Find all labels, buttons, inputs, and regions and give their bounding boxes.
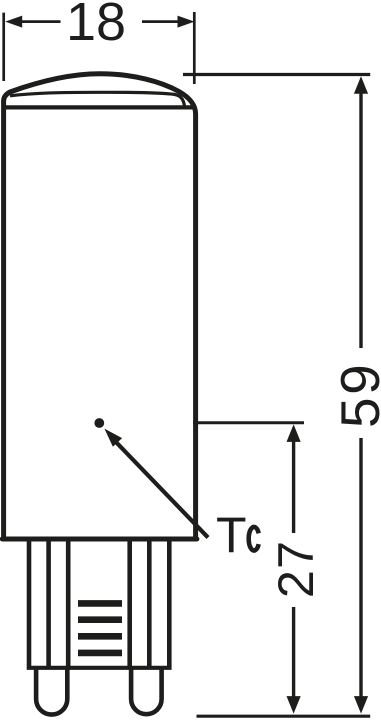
base strut 5 bbox=[147, 540, 152, 666]
dome inner arc bbox=[10, 92, 185, 106]
svg-text:18: 18 bbox=[66, 0, 126, 52]
extension line top (59) bbox=[183, 73, 370, 76]
base strut 1 bbox=[27, 540, 32, 666]
arrowhead 59 bottom bbox=[354, 696, 368, 714]
arrowhead 59 top bbox=[354, 76, 368, 94]
extension line left (18) bbox=[2, 13, 5, 81]
arrowhead 18 right bbox=[178, 16, 195, 28]
Tc leader line bbox=[114, 440, 208, 538]
base bottom edge bbox=[27, 666, 172, 670]
Tc point dot bbox=[94, 418, 104, 428]
vent bar 2 bbox=[78, 616, 122, 623]
dimension line 59 upper segment bbox=[359, 92, 362, 348]
base strut 6 bbox=[167, 540, 172, 666]
vent bar 4 bbox=[78, 650, 122, 657]
dome seam line bbox=[4, 105, 196, 109]
base strut 4 bbox=[127, 540, 132, 666]
base strut 2 bbox=[46, 540, 51, 666]
svg-text:T: T bbox=[216, 507, 247, 563]
lamp body outline (dome + sides + bottom) bbox=[4, 74, 196, 537]
base strut 3 bbox=[66, 540, 71, 666]
Tc leader arrowhead bbox=[104, 429, 122, 447]
extension line Tc level (27) bbox=[193, 421, 304, 424]
dimension line 18 right segment bbox=[142, 20, 180, 23]
dimension line 27 lower segment bbox=[292, 607, 295, 698]
dimension line 59 lower segment bbox=[359, 438, 362, 698]
svg-text:59: 59 bbox=[329, 362, 381, 428]
arrowhead 18 left bbox=[5, 16, 22, 28]
extension line right (18) bbox=[193, 12, 196, 84]
vent bar 1 bbox=[78, 600, 122, 607]
dimension line 27 upper segment bbox=[292, 440, 295, 533]
dimension line 18 left segment bbox=[20, 20, 61, 23]
svg-text:27: 27 bbox=[267, 540, 324, 598]
right pin bbox=[131, 667, 162, 714]
Tc label c bbox=[249, 527, 259, 551]
arrowhead 27 bottom bbox=[287, 696, 301, 714]
vent bar 3 bbox=[78, 633, 122, 640]
left pin bbox=[36, 667, 67, 715]
extension line bottom (59) bbox=[197, 715, 371, 718]
arrowhead 27 top bbox=[287, 424, 301, 442]
lamp body bottom edge bbox=[2, 537, 197, 542]
